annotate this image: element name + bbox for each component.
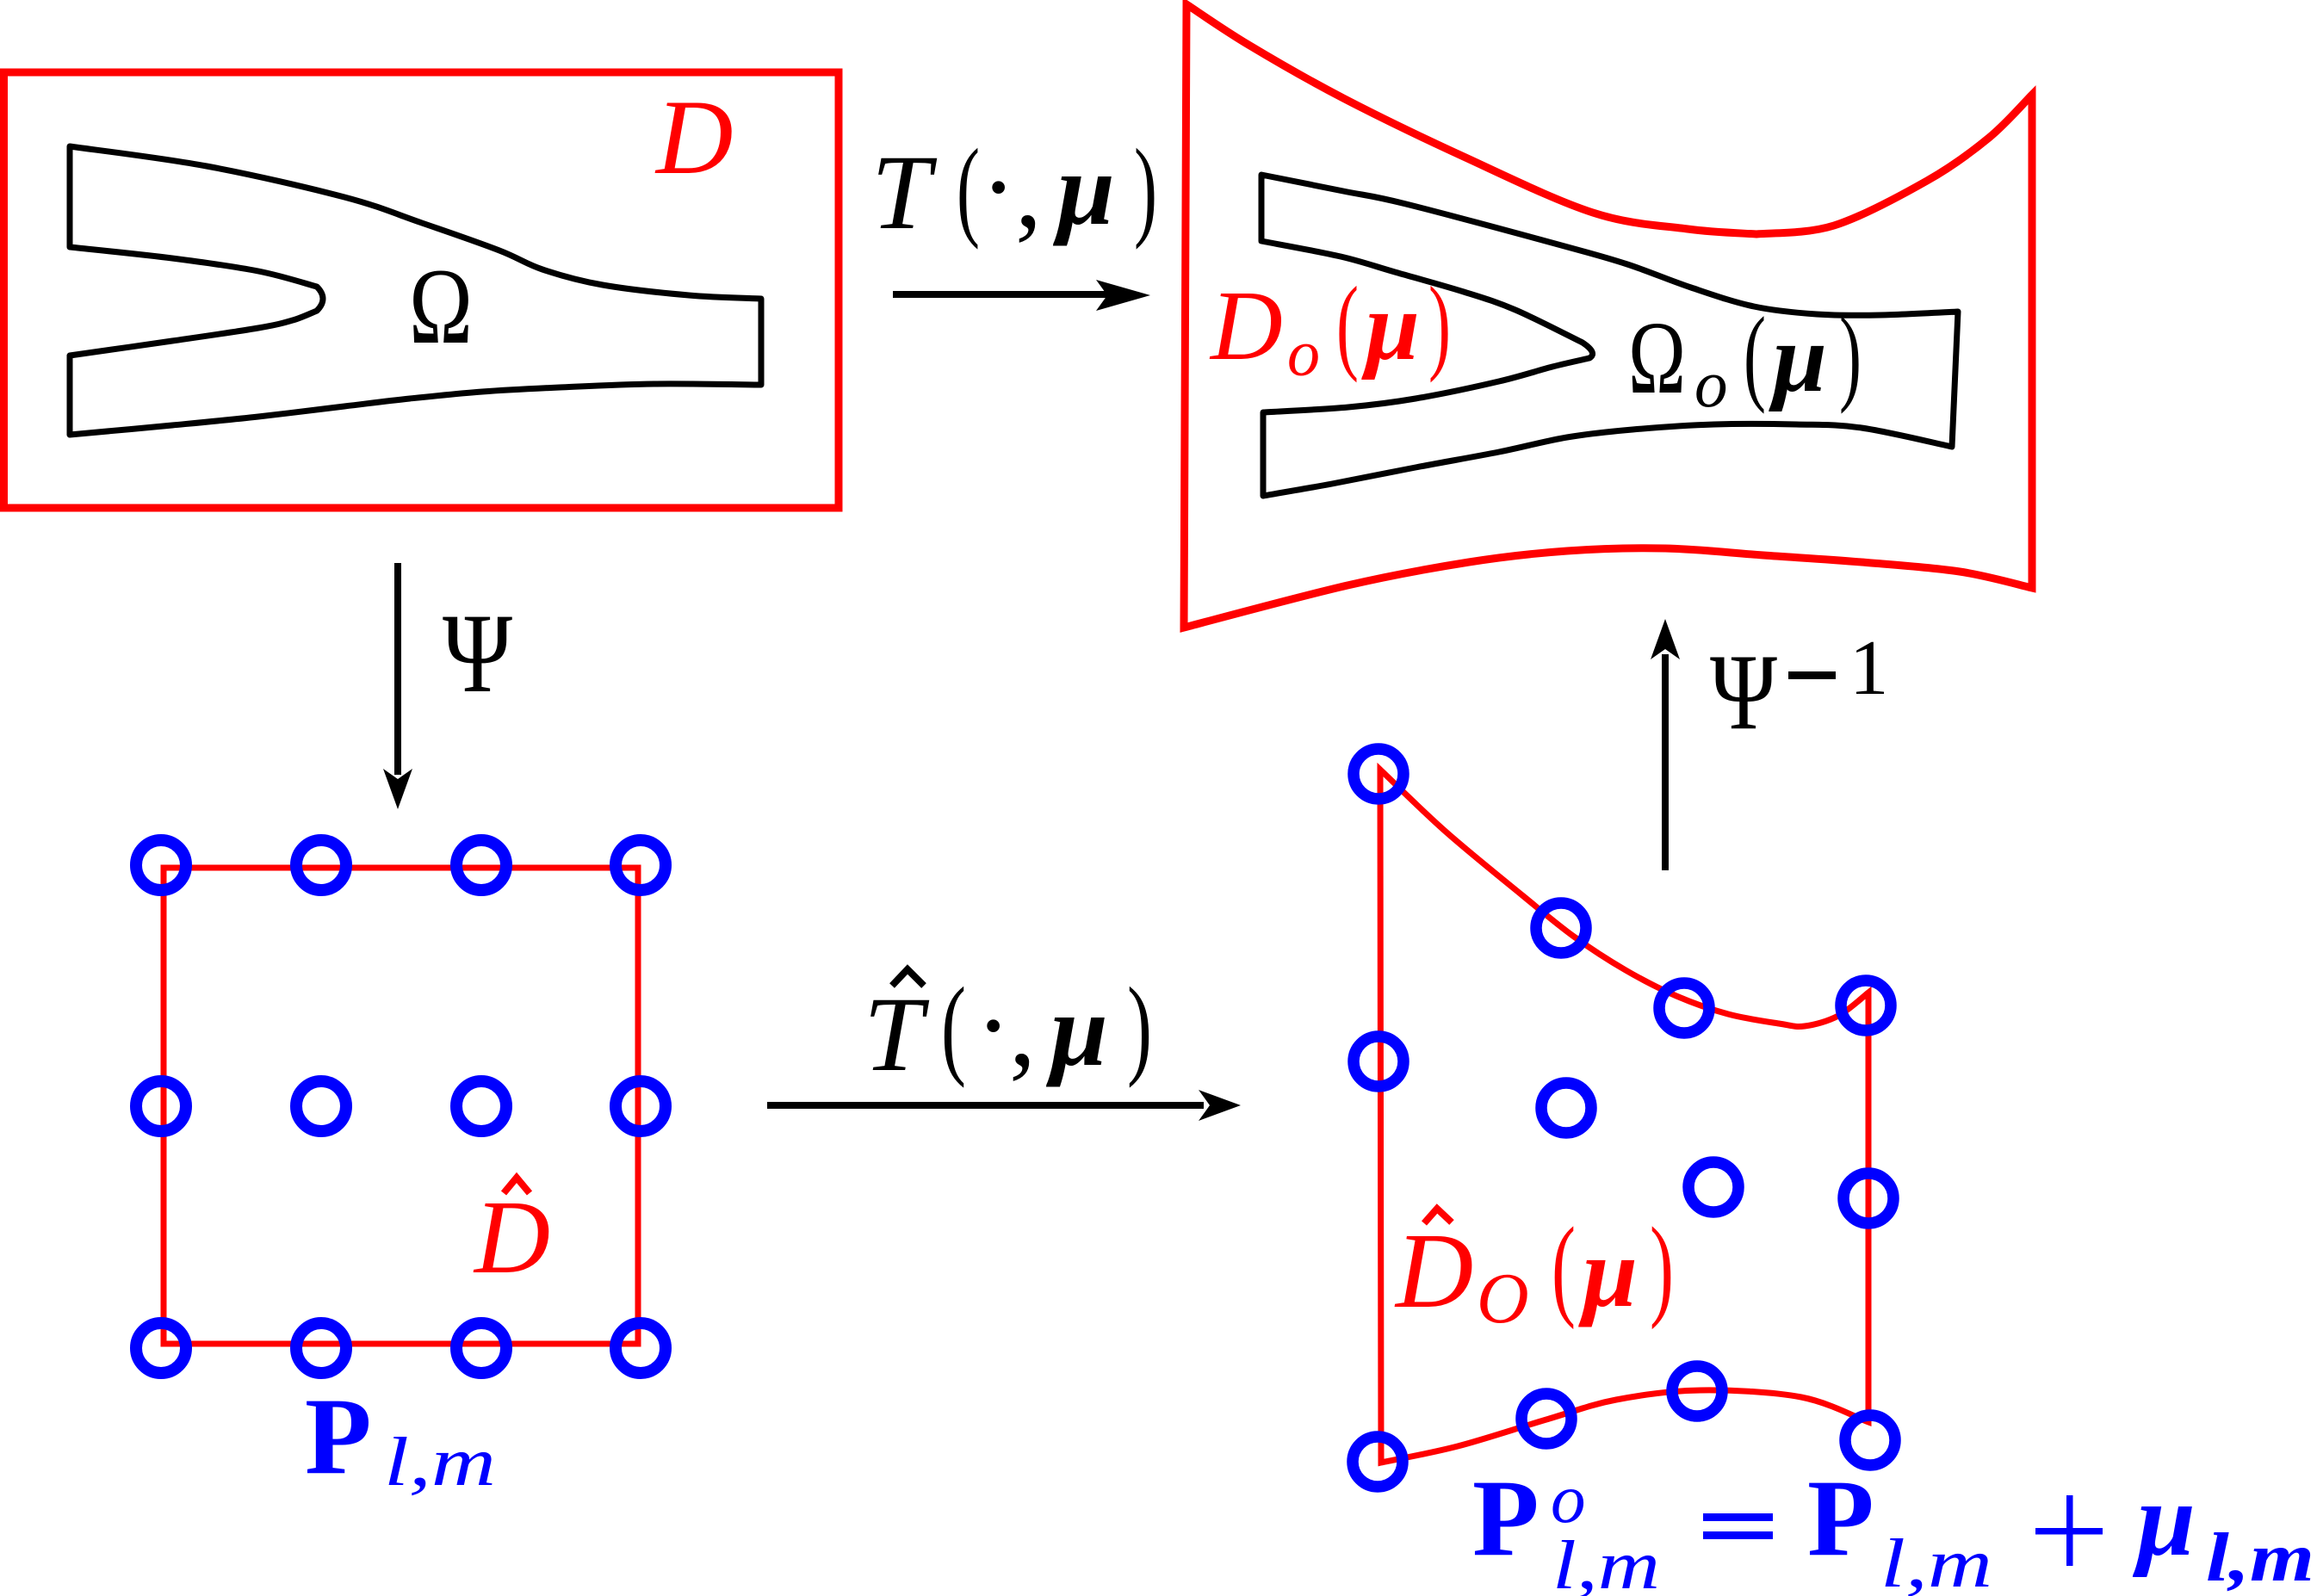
equals sign [1703, 1513, 1773, 1521]
node Po00 [1354, 749, 1403, 799]
node P21 [456, 1081, 506, 1131]
node P32 [616, 1323, 666, 1373]
node P02 [136, 1323, 186, 1373]
svg-text:Ω: Ω [409, 247, 473, 367]
node P00 [136, 840, 186, 890]
displaced control points P^o_lm (blue circles) [1353, 749, 1895, 1487]
domain box D (top-left red rectangle) [4, 72, 839, 508]
svg-text:Ψ: Ψ [1710, 633, 1777, 752]
deformed domain Do(mu) (top-right red shape) [1184, 4, 2032, 628]
node Po30 [1841, 980, 1891, 1030]
deformed reference square D-hat_O(mu) (bottom-right red shape) [1380, 770, 1868, 1463]
node Po21 [1688, 1162, 1738, 1212]
label D-hat_O(mu) (red) [1424, 1209, 1452, 1223]
svg-text:Ψ: Ψ [443, 590, 513, 716]
node Po11 [1541, 1083, 1591, 1133]
label T-hat(.,mu) [892, 969, 924, 986]
svg-text:1: 1 [1849, 624, 1889, 711]
deformed channel Omega_o(mu) (black outline, top-right) [1261, 175, 1958, 496]
arrow Psi^-1 (up) [1662, 654, 1669, 870]
control points P_lm (blue circles, 4x3 grid) [136, 840, 666, 1373]
node Po02 [1353, 1437, 1403, 1487]
node Po31 [1843, 1173, 1893, 1223]
node Po32 [1845, 1415, 1895, 1465]
label D-hat (red) [504, 1178, 530, 1193]
node Po20 [1659, 983, 1709, 1033]
arrow T-hat(.,mu) [767, 1102, 1204, 1109]
node P22 [456, 1323, 506, 1373]
arrow T(.,mu) [893, 291, 1111, 298]
node P31 [616, 1081, 666, 1131]
node Po01 [1354, 1036, 1403, 1086]
svg-text:D: D [473, 1179, 550, 1296]
node Po22 [1672, 1366, 1722, 1416]
svg-text:T(·,μ): T(·,μ) [871, 127, 1157, 251]
channel Omega (black Y-shaped outline, top-left) [70, 146, 761, 435]
node P12 [296, 1323, 346, 1373]
node P20 [456, 840, 506, 890]
svg-text:D: D [654, 78, 734, 196]
svg-text:Ωo(μ): Ωo(μ) [1628, 296, 1862, 421]
node Po12 [1521, 1394, 1571, 1444]
arrow Psi (down) [394, 563, 401, 775]
node P10 [296, 840, 346, 890]
node P01 [136, 1081, 186, 1131]
node P11 [296, 1081, 346, 1131]
node Po10 [1536, 903, 1586, 953]
reference square D-hat (bottom-left red square) [164, 868, 638, 1344]
plus sign [2035, 1528, 2103, 1535]
node P30 [616, 840, 666, 890]
